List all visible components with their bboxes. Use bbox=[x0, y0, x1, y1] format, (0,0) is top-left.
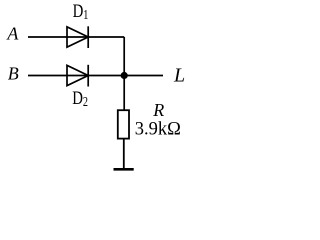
wire resistor to ground bbox=[123, 139, 125, 169]
svg-text:B: B bbox=[8, 64, 19, 84]
svg-text:D1: D1 bbox=[73, 0, 89, 22]
svg-text:L: L bbox=[173, 65, 185, 87]
diode D1 bbox=[67, 26, 88, 48]
wire vertical from D1 corner to resistor bbox=[123, 37, 125, 110]
svg-text:D2: D2 bbox=[72, 87, 88, 109]
svg-text:3.9kΩ: 3.9kΩ bbox=[135, 120, 181, 140]
junction node bbox=[121, 72, 128, 79]
resistor R box bbox=[118, 110, 129, 138]
wire A input bbox=[28, 36, 124, 38]
ground bbox=[114, 168, 134, 171]
svg-text:R: R bbox=[152, 100, 164, 120]
wire B input bbox=[28, 75, 163, 77]
diode D2 bbox=[67, 65, 88, 87]
svg-text:A: A bbox=[6, 24, 19, 44]
